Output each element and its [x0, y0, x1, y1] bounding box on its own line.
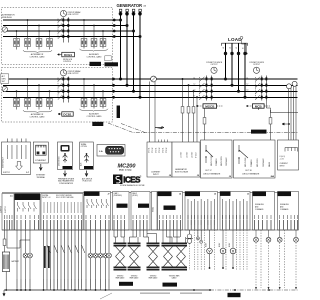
svg-text:J-A: J-A: [99, 150, 103, 153]
svg-text:CAN BUS: CAN BUS: [121, 283, 132, 286]
contactor MGCB clock meter: [211, 67, 217, 73]
panel 2 breaker GCB2 contact bars: [62, 78, 69, 99]
panel 2 component bottom stubs: [17, 107, 104, 110]
battery feed wires: [5, 230, 31, 290]
can1 box: [113, 192, 130, 231]
terminal pin stubs below strip: [5, 215, 298, 219]
svg-text:L2 VOLT: L2 VOLT: [187, 152, 189, 158]
analog inputs pin label columns: [188, 199, 214, 225]
meter V1: [207, 248, 213, 254]
CT2 current transformer B: [292, 81, 297, 86]
bottom rotated wire labels: [17, 279, 110, 288]
panel 2 brace left group: [23, 110, 52, 113]
rs485 twisted pair connector bottom: [147, 267, 160, 269]
panel 2 fuse F14: [81, 99, 87, 107]
svg-text:CONTROL CARD: CONTROL CARD: [86, 56, 102, 59]
MCB labelled box: [253, 104, 265, 108]
generator terminal pads: [119, 9, 141, 11]
field switch contacts on input wires: [47, 245, 85, 253]
svg-text:CT1 S2: CT1 S2: [152, 147, 154, 153]
svg-text:SUPPLY: SUPPLY: [3, 172, 11, 174]
pmcb twisted pair cable B: [177, 247, 186, 267]
panel 1 fuse F8: [100, 39, 106, 47]
panel 1 dashed border: [2, 8, 113, 65]
panel 2 dashed border: [2, 68, 113, 123]
svg-text:GCB OUTPUT: GCB OUTPUT: [68, 73, 79, 75]
usb box: [58, 142, 73, 170]
svg-text:CT2 S1: CT2 S1: [156, 147, 158, 153]
svg-text:TWISTED: TWISTED: [150, 276, 158, 278]
svg-text:DCB1: DCB1: [64, 53, 72, 57]
boundary dash-dot line: [108, 123, 298, 133]
svg-text:OPTION: OPTION: [81, 146, 88, 148]
analog dashed field wires: [195, 230, 215, 270]
out17 pin labels: [211, 155, 228, 166]
svg-text:POWER: POWER: [158, 194, 165, 196]
svg-text:OUT 17: OUT 17: [205, 170, 212, 172]
svg-text:TWISTED: TWISTED: [131, 276, 139, 278]
panel 2 clock caption: [68, 70, 82, 75]
svg-text:L1: L1: [194, 77, 196, 79]
out18 bottom label: [242, 170, 260, 176]
contactor MCB phase ticks: [247, 77, 249, 91]
lamp H1: [23, 253, 28, 258]
lamp H5: [98, 253, 103, 258]
panel 1 DCB1 labelled box: [62, 52, 75, 57]
current input pin ticks: [159, 140, 168, 143]
bottom diagonal leader: [100, 293, 112, 299]
svg-text:0-10V: 0-10V: [206, 242, 208, 247]
generator feeder junction dots on panel1 bus: [119, 19, 142, 39]
contactor MCB caption: [249, 61, 265, 66]
lamp H7: [107, 253, 112, 258]
panel 2 alternator symbol box: [1, 74, 9, 84]
MCB arrow dashes: [246, 105, 252, 107]
rotated black labels mains/gen signal: [44, 246, 46, 268]
svg-text:L2: L2: [194, 84, 196, 86]
contactor MGCB rails: [207, 76, 212, 101]
contactor MCB rails: [262, 76, 267, 101]
load phase labels: [223, 47, 245, 49]
svg-text:ICES: ICES: [123, 176, 141, 185]
supply terminal box J-C: [2, 194, 14, 231]
out17 relay contact: [206, 145, 213, 163]
svg-text:RS485: RS485: [153, 207, 155, 212]
svg-text:PM-G1: PM-G1: [91, 63, 99, 66]
ethernet RJ45 icon: [36, 145, 47, 155]
panel 1 bus wires L1 L2 L3 N: [3, 20, 140, 37]
svg-text:INPUT: INPUT: [280, 166, 285, 168]
svg-text:J7: J7: [108, 193, 110, 195]
panel 1 fuse F6: [81, 39, 87, 47]
svg-text:L1: L1: [223, 47, 225, 49]
can2 twisted pair cable: [130, 247, 139, 267]
svg-text:ETHERNET: ETHERNET: [35, 160, 47, 162]
rs485 cable drop wires: [144, 230, 157, 243]
svg-text:J3: J3: [247, 193, 249, 195]
contactor MCB switch blades: [256, 77, 261, 100]
lamp H2: [28, 253, 33, 258]
meter V2: [220, 248, 226, 254]
svg-text:GENERATOR: GENERATOR: [117, 3, 143, 8]
can1 twisted pair cable: [116, 247, 125, 267]
svg-text:SUPPLY: SUPPLY: [5, 205, 7, 213]
svg-text:MC200: MC200: [118, 163, 137, 169]
lamp H4: [93, 253, 98, 258]
svg-text:CIRCUIT BREAKER: CIRCUIT BREAKER: [242, 173, 260, 176]
digital output 06-09 switches: [18, 202, 37, 212]
svg-text:CIRCUIT BREAKER: CIRCUIT BREAKER: [203, 173, 221, 176]
can1 cable drop wires: [114, 230, 125, 243]
panel 1 clock meter: [60, 10, 66, 16]
CT2 current transformer A: [287, 84, 292, 89]
utility tap circle near load: [240, 36, 243, 39]
svg-text:CONTROL CARD: CONTROL CARD: [86, 115, 102, 118]
output 09 lamp wire: [29, 230, 31, 290]
power interface box J4: [158, 192, 183, 231]
svg-text:TWISTED PAIR: TWISTED PAIR: [169, 275, 180, 278]
meter V3 wire: [232, 230, 234, 268]
svg-text:L3 VOLT: L3 VOLT: [192, 152, 194, 158]
ethernet down arrow: [39, 164, 42, 170]
negative rail dash-dot: [210, 289, 298, 291]
svg-text:PM-G2: PM-G2: [94, 123, 102, 126]
can1 termination black box: [117, 204, 128, 208]
gen bus voltage bottom label: [175, 168, 189, 174]
svg-text:MGCB CLOSE: MGCB CLOSE: [211, 155, 213, 166]
panel 2 fuse F10: [25, 99, 31, 107]
aux usb trident icon: [84, 155, 89, 163]
panel 1 fuse F7: [91, 39, 97, 47]
mains arrow marker: [282, 123, 288, 125]
plus-minus terminals: [198, 230, 201, 240]
svg-text:L3: L3: [236, 47, 238, 49]
svg-text:0-10V: 0-10V: [229, 242, 231, 247]
svg-text:DIG 1 OUTPUT GROUND: DIG 1 OUTPUT GROUND: [56, 197, 74, 199]
svg-text:TWISTED: TWISTED: [117, 276, 125, 278]
svg-text:GND: GND: [232, 295, 237, 297]
svg-text:MCB CLOSE: MCB CLOSE: [245, 158, 247, 167]
strip bottom rule: [2, 229, 298, 231]
panel 2 arrow to DCB1: [58, 113, 62, 115]
svg-text:COMMON: COMMON: [251, 159, 253, 167]
main bus wire N: [3, 96, 298, 98]
svg-text:INPUT: INPUT: [153, 174, 160, 176]
load feeder wires: [226, 43, 246, 97]
cable captions: [116, 275, 181, 280]
panel 1 caption ALTERNATOR CONTROL CARD: [29, 53, 45, 58]
contactor MCB linkage: [255, 77, 257, 100]
panel 1 small counter box: [105, 56, 111, 61]
digital input 1-8 box: [41, 194, 83, 231]
battery fuse: [3, 239, 6, 246]
svg-text:FUNCTION: FUNCTION: [83, 181, 92, 183]
svg-text:DIG 1 INPUT GROUND: DIG 1 INPUT GROUND: [56, 195, 73, 197]
panel 2 fuse F15: [91, 99, 97, 107]
panel 1 breaker GCB1 blades: [58, 18, 62, 39]
svg-text:MAINS: MAINS: [255, 131, 263, 134]
panel 1 second black tag: [105, 62, 119, 66]
svg-text:L1 VOLT: L1 VOLT: [181, 152, 183, 158]
can1 twisted pair connector top: [114, 243, 127, 245]
svg-text:CONFIGURATION: CONFIGURATION: [59, 182, 74, 185]
panel 1 breaker GCB1 ladder rails: [63, 17, 68, 42]
svg-text:L1: L1: [247, 77, 249, 79]
aux down arrow: [85, 171, 88, 177]
ethernet box: [33, 142, 48, 163]
ct2 comb icon: [285, 148, 298, 152]
analog meter V wire: [209, 230, 211, 268]
aux device box: [80, 142, 94, 170]
svg-text:CONTROL: CONTROL: [63, 61, 71, 63]
digital output 06-09 box with black header: [15, 194, 41, 231]
svg-text:OUT 18: OUT 18: [245, 170, 252, 172]
svg-text:DCB1: DCB1: [63, 112, 71, 116]
panel 2 tap dots: [16, 78, 104, 92]
boundary black tag MAINS: [251, 130, 267, 134]
MGCB labelled box: [203, 104, 217, 108]
CT1 current transformer on bus L1: [151, 76, 157, 82]
lamp H3: [88, 253, 93, 258]
panel 1 black tag GCB1: [90, 62, 102, 66]
supply box J1: [2, 142, 31, 175]
ct2 text lines: [280, 156, 288, 168]
aux analog dashed wires: [226, 230, 247, 270]
svg-text:CAN T: CAN T: [119, 205, 124, 208]
panel 2 caption ALTERNATOR CONTROL CARD: [29, 113, 45, 118]
can2 cable drop wires: [130, 230, 141, 243]
panel 1 alternator text block: [2, 14, 16, 19]
contactor MGCB phase ticks: [194, 77, 196, 97]
current input bottom label: [151, 172, 161, 177]
supply box pin stubs: [8, 139, 27, 143]
digital output 1-5 box with black header: [84, 192, 111, 231]
digital input signaling box: [253, 192, 275, 231]
contactor MGCB contact bars: [206, 77, 213, 98]
output 06/07 wires to rail: [17, 230, 21, 290]
panel 2 black vertical tag: [117, 106, 120, 119]
svg-text:OUTPUT: OUTPUT: [211, 64, 218, 66]
svg-text:CONTROL CARD: CONTROL CARD: [29, 116, 45, 119]
SICES logo black square: [113, 175, 123, 185]
transformer sensor: [186, 230, 193, 243]
out18 relay contact: [239, 145, 248, 164]
MCB coil wire with fuse: [258, 101, 270, 143]
gen bus voltage pin labels: [181, 152, 198, 158]
generator bus voltage box J9: [172, 142, 200, 177]
power interface inner black box: [164, 206, 176, 210]
generator terminal dots: [119, 12, 142, 16]
svg-text:CONTROL CARD: CONTROL CARD: [29, 56, 45, 59]
battery block: [2, 252, 9, 272]
panel 1 brace right group: [80, 49, 109, 52]
panel 1 bus junction dots at border: [113, 19, 116, 38]
svg-text:J6A: J6A: [270, 175, 274, 178]
svg-text:+CT2: +CT2: [280, 159, 284, 161]
load terminal dots: [224, 52, 247, 55]
usb down arrow: [64, 171, 67, 177]
svg-text:DIGITAL: DIGITAL: [253, 193, 259, 196]
panel 2 DCB1 labelled box: [62, 112, 73, 116]
voltage sense wire L1 with fuse: [182, 79, 184, 142]
panel 2 breaker GCB2 ladder rails: [63, 77, 68, 103]
panel 1 fuse F3: [36, 39, 42, 47]
svg-text:N: N: [242, 47, 244, 49]
main bus wire L2: [3, 84, 298, 86]
out17 circuit breaker box: [201, 140, 233, 178]
svg-text:MCB OPEN: MCB OPEN: [257, 158, 259, 167]
aux caption: [82, 178, 93, 183]
pmcb bundle connector top: [162, 243, 188, 245]
can2 twisted pair connector top: [128, 243, 141, 245]
svg-text:MCB: MCB: [255, 104, 263, 108]
out17 bottom label: [203, 170, 221, 176]
panel 1 breaker GCB1 linkage: [57, 19, 59, 39]
strip top rule: [2, 192, 298, 194]
svg-text:USB DEVICE: USB DEVICE: [58, 156, 60, 166]
digital output lamp wires: [86, 230, 109, 290]
panel 1 tap dots: [16, 19, 104, 32]
negative rail solid: [4, 289, 210, 291]
svg-text:EMERGENCY: EMERGENCY: [3, 156, 5, 168]
svg-text:PMCBUS: PMCBUS: [165, 285, 175, 287]
svg-text:J4: J4: [179, 193, 181, 196]
svg-text:(PMCBUS): (PMCBUS): [114, 195, 123, 197]
black tag CAN BUS: [119, 282, 133, 286]
CT2 secondary wires: [289, 86, 297, 143]
panel 1 clock caption: [68, 11, 82, 16]
out18 circuit breaker box: [234, 140, 276, 178]
CT1 secondary wires to current input: [150, 82, 156, 143]
svg-text:OUTPUT 1..5: OUTPUT 1..5: [85, 195, 95, 197]
rs232 DB9 box: [97, 145, 125, 157]
panel 2 clock meter: [60, 70, 66, 76]
panel 1 caption under DCB1: [63, 59, 73, 63]
aux device header text: [81, 143, 88, 148]
meter V3: [230, 248, 236, 254]
MGCB arrow dashes: [196, 105, 203, 107]
pmcb bundle drop wires: [163, 230, 186, 243]
svg-text:CT3 S1: CT3 S1: [163, 147, 165, 153]
digital input field wires: [44, 230, 82, 290]
svg-text:ANALOG: ANALOG: [186, 193, 194, 196]
usb footer tag: [63, 166, 73, 169]
svg-text:L2: L2: [247, 84, 249, 86]
svg-text:L2: L2: [229, 47, 231, 49]
svg-text:L3: L3: [247, 90, 249, 92]
panel 1 component bottom stubs: [17, 47, 104, 50]
digital output 1-5 switches: [87, 199, 109, 208]
signal lamp drop wires col1: [256, 230, 296, 237]
svg-text:TERMINAL: TERMINAL: [37, 176, 46, 179]
meter V2 wire: [222, 230, 224, 268]
svg-text:(J1939): (J1939): [132, 195, 138, 197]
usb caption: [58, 178, 75, 185]
contactor MGCB linkage: [199, 77, 201, 100]
panel 2 component taps: [17, 79, 104, 99]
panel 2 caption AUXILIARY CONTROL CARD: [86, 113, 102, 118]
rs485 twisted pair cable: [149, 247, 158, 267]
aux analog box: [220, 192, 250, 231]
svg-text:AN/DIG: AN/DIG: [221, 193, 228, 196]
panel 1 fuse F1: [14, 39, 20, 47]
panel 2 fuse F12: [47, 99, 53, 107]
svg-text:MGCB OPEN: MGCB OPEN: [221, 155, 223, 166]
svg-text:PMCB: PMCB: [167, 208, 173, 210]
voltage sense wire L3 with fuse: [193, 91, 195, 142]
output 08 lamp wire: [25, 230, 27, 290]
svg-text:DIGITAL: DIGITAL: [278, 193, 284, 196]
rs485 twisted pair connector top: [147, 243, 160, 245]
svg-text:MGCB: MGCB: [205, 104, 215, 108]
main bus wire L3: [3, 90, 298, 92]
svg-text:CT1 S1: CT1 S1: [149, 147, 151, 153]
aux analog pin columns: [223, 199, 248, 225]
svg-text:N VOLT: N VOLT: [196, 152, 198, 158]
can2 termination black box: [138, 204, 149, 208]
current input pin labels: [149, 147, 169, 153]
signal lamp dashed returns: [256, 230, 296, 288]
current input box J8: [147, 142, 172, 177]
svg-text:BUS VOLTAGE: BUS VOLTAGE: [175, 171, 189, 174]
black tag bottom right: [228, 293, 241, 297]
panel 2 brace right group: [80, 109, 109, 112]
contactor MGCB switch blades: [200, 77, 205, 100]
panel 2 breaker GCB2 linkage: [57, 78, 59, 100]
panel 1 component taps (wires from bus to fuses): [17, 20, 104, 39]
voltage sense wire L2 with fuse: [188, 85, 190, 142]
black tag PMCBUS: [163, 283, 178, 287]
voltage sense wire N: [196, 97, 198, 142]
svg-text:Made in Italy: Made in Italy: [119, 168, 132, 171]
panel 2 fuse F9: [14, 99, 20, 107]
digital input pin columns: [44, 202, 81, 213]
panel 1 brace left group: [23, 50, 52, 53]
panel 1 arrow to DCB1: [58, 54, 62, 56]
MGCB coil wire with fuse: [204, 108, 206, 142]
lamp H11: [294, 237, 299, 242]
panel 2 fuse F11: [36, 99, 42, 107]
usb port icon: [61, 145, 70, 152]
rotated terminal name labels: [4, 220, 298, 230]
svg-text:BATTERY: BATTERY: [12, 260, 21, 263]
out18 pin labels: [245, 157, 271, 167]
pmcb bundle connector bottom: [162, 267, 188, 269]
svg-text:®: ®: [140, 176, 142, 179]
panel 1 fuse F2: [25, 39, 31, 47]
generator vertical feeders: [121, 12, 141, 98]
load terminal bracket: [222, 43, 248, 46]
svg-text:GCB OUTPUT: GCB OUTPUT: [68, 14, 79, 16]
supply box pin label columns: [7, 145, 26, 159]
main bus wire L1: [3, 78, 298, 80]
rs485 narrow box: [152, 192, 158, 231]
lamp return arrowheads: [255, 287, 297, 289]
rail junction dots: [5, 289, 270, 291]
sub-rail tiny annotations: [140, 293, 202, 294]
panel 2 CT meter W2: [2, 86, 7, 91]
meter junction dots: [209, 267, 234, 269]
supply box hollow arrow: [16, 162, 23, 171]
analog inputs box J5: [185, 192, 218, 231]
panel 1 breaker GCB1 contact bars: [62, 19, 69, 38]
usb trident icon: [63, 155, 68, 163]
svg-text:CT2 S2: CT2 S2: [159, 147, 161, 153]
panel 1 caption AUXILIARY CONTROL CARD: [86, 53, 102, 58]
panel 2 black tag GCB1: [92, 122, 103, 126]
contactor MCB contact bars: [261, 77, 268, 98]
aux footer tag: [84, 166, 93, 169]
